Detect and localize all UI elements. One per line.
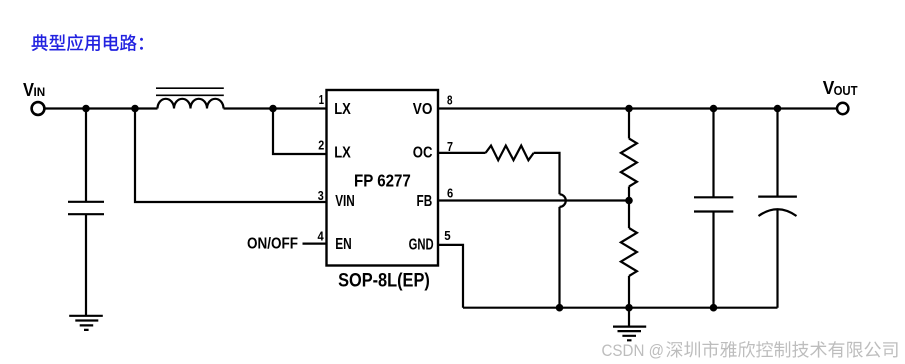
wire branch to pin 3 VIN [135, 107, 327, 202]
wire C1 to ground [85, 214, 87, 316]
svg-text:3: 3 [318, 188, 324, 203]
node junction VIN pin branch [131, 105, 139, 113]
wire ground stub below bottom rail [628, 308, 630, 327]
svg-text:SOP-8L(EP): SOP-8L(EP) [338, 270, 430, 291]
wire output capacitor C2 top lead [712, 109, 714, 198]
wire hop over FB line [560, 194, 566, 207]
wire top rail from VIN terminal to inductor [45, 107, 158, 109]
wire output capacitor C3 top lead [776, 109, 778, 197]
package label SOP-8L(EP) [338, 270, 430, 291]
svg-text:LX: LX [334, 145, 351, 162]
pin number 6 [447, 186, 453, 201]
svg-text:2: 2 [318, 138, 324, 153]
pin number 4 [318, 229, 325, 244]
wire OC pin 7 to resistor R1 [438, 152, 486, 154]
pin number 7 [447, 139, 453, 154]
pin label EN 4 [335, 236, 352, 253]
watermark CSDN @深圳市雅欣控制技术有限公司 [602, 341, 898, 360]
node junction divider/ground [625, 304, 633, 312]
wire bottom ground rail [463, 307, 778, 309]
wire GND pin 5 to bottom rail [438, 245, 463, 308]
VOUT terminal circle [837, 103, 848, 114]
svg-text:GND: GND [409, 236, 434, 253]
svg-text:CSDN @: CSDN @ [602, 342, 665, 360]
wire R1 to vertical drop [534, 153, 560, 194]
pin label LX 2 [334, 145, 351, 162]
pin number 2 [318, 138, 324, 153]
pin label VO 8 [413, 101, 433, 118]
op-amp U1 FP6277 body [327, 90, 439, 266]
node junction OC drop/bottom rail [556, 304, 564, 312]
wire divider top lead [628, 109, 630, 139]
node FB divider tap [625, 197, 633, 205]
wire from inductor to pin 1 LX [224, 107, 327, 109]
capacitor C3 (polarized output) [758, 197, 797, 216]
resistor R3 (divider lower) [621, 228, 637, 276]
capacitor C1 (input) [68, 202, 104, 214]
svg-text:FP 6277: FP 6277 [354, 170, 411, 190]
wire C3 bottom lead [776, 210, 778, 308]
pin label OC 7 [413, 145, 433, 162]
label VIN terminal [23, 79, 45, 100]
title 典型应用电路： [32, 34, 144, 51]
svg-text:EN: EN [335, 236, 352, 253]
wire divider middle lead [628, 187, 630, 229]
svg-text:LX: LX [334, 101, 351, 118]
IC name FP 6277 [354, 170, 411, 190]
svg-text:8: 8 [447, 93, 453, 108]
svg-text:OUT: OUT [834, 84, 858, 98]
wire branch to pin 2 LX [273, 107, 327, 154]
VIN terminal circle [32, 102, 45, 115]
wire drop to bottom rail [558, 207, 560, 308]
pin number 3 [318, 188, 324, 203]
pin number 1 [319, 92, 324, 107]
wire FB pin 6 to divider tap [438, 199, 629, 201]
capacitor C2 (output) [694, 197, 733, 211]
svg-text:1: 1 [319, 92, 324, 107]
pin label VIN 3 [335, 193, 355, 210]
node junction VO/divider [625, 105, 633, 113]
svg-text:7: 7 [447, 139, 453, 154]
pin number 5 [444, 228, 450, 243]
ground symbol under C1 [69, 316, 103, 330]
svg-text:VIN: VIN [335, 193, 355, 210]
node junction LX pin 2 branch [269, 105, 277, 113]
pin number 8 [447, 93, 453, 108]
svg-text:4: 4 [318, 229, 325, 244]
wire branch to input capacitor C1 [85, 107, 87, 201]
pin label LX 1 [334, 101, 351, 118]
resistor R1 (OC series) [486, 146, 534, 161]
node junction VO/C2 [710, 105, 718, 113]
svg-text:OC: OC [413, 145, 433, 162]
wire EN input from ON/OFF [303, 243, 327, 245]
svg-text:6: 6 [447, 186, 453, 201]
node junction VIN/C1 [82, 105, 90, 113]
pin label FB 6 [417, 193, 433, 210]
svg-text:5: 5 [444, 228, 450, 243]
ground symbol under divider [613, 327, 646, 341]
resistor R2 (divider upper) [621, 139, 637, 187]
wire VO output rail to VOUT terminal [438, 107, 837, 109]
wire C2 bottom lead [712, 212, 714, 308]
wire divider bottom lead [628, 276, 630, 308]
svg-text:ON/OFF: ON/OFF [247, 236, 298, 253]
node junction C2/bottom rail [710, 304, 718, 312]
inductor L1 [156, 88, 224, 108]
label ON/OFF [247, 236, 298, 253]
label VOUT terminal [823, 77, 858, 98]
pin label GND 5 [409, 236, 434, 253]
node junction VO/C3 [774, 105, 782, 113]
svg-text:VO: VO [413, 101, 433, 118]
svg-text:FB: FB [417, 193, 433, 210]
svg-text:IN: IN [34, 85, 46, 99]
